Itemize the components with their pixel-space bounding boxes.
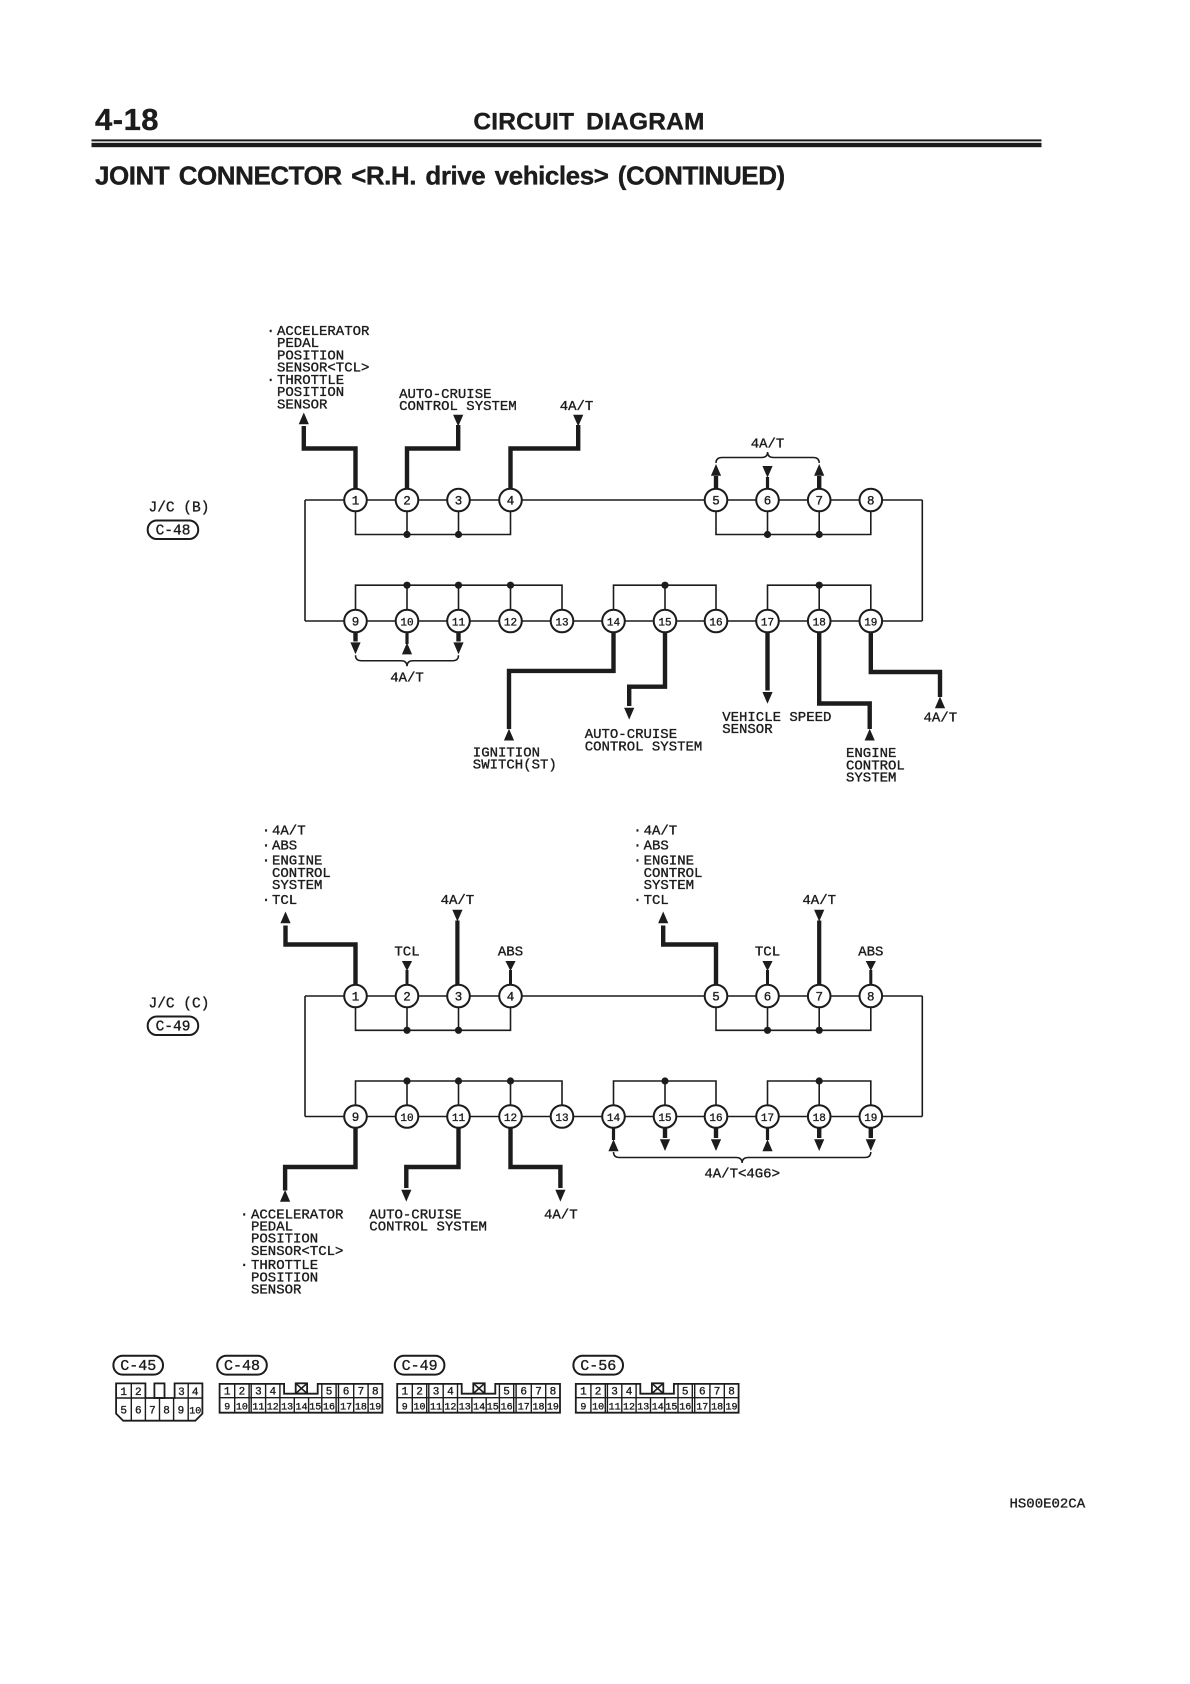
wire: terminal 6 stub (C) [766, 970, 769, 986]
wire: terminal 15 to auto-cruise control system [629, 632, 665, 706]
svg-text:2: 2 [135, 1387, 142, 1399]
svg-text:9: 9 [580, 1403, 586, 1414]
connector designator C-45 [113, 1356, 163, 1375]
svg-text:4-18: 4-18 [95, 102, 159, 137]
arrowhead up (4A/T wire) [935, 697, 945, 709]
svg-text:C-49: C-49 [402, 1358, 438, 1375]
terminal 13 (J/C C) [551, 1105, 574, 1128]
svg-text:13: 13 [459, 1403, 471, 1414]
svg-text:SYSTEM: SYSTEM [644, 878, 694, 894]
svg-text:4A/T: 4A/T [560, 399, 594, 415]
svg-text:4A/T<4G6>: 4A/T<4G6> [704, 1166, 780, 1182]
wire: terminal 12 tap (C) [510, 1081, 512, 1117]
wire: terminal 6 tap (C) [767, 996, 769, 1030]
connector designator C-48 [148, 521, 199, 540]
svg-text:4: 4 [507, 990, 515, 1004]
junction dot bus node at terminal 15 (C) [661, 1077, 668, 1084]
wire: terminal 7 stub up [817, 476, 821, 490]
svg-text:12: 12 [504, 617, 517, 629]
wire: terminal 12 tap [510, 585, 512, 621]
svg-text:17: 17 [761, 1113, 774, 1125]
svg-text:10: 10 [400, 617, 413, 629]
svg-text:5: 5 [712, 990, 720, 1004]
svg-text:19: 19 [864, 617, 877, 629]
svg-text:11: 11 [452, 1113, 466, 1125]
wire: terminal 6 tap [767, 500, 769, 535]
svg-text:SYSTEM: SYSTEM [846, 771, 896, 787]
connector designator C-48 (pinout) [217, 1356, 267, 1375]
svg-text:·: · [633, 854, 641, 870]
terminal 3 (J/C B) [447, 489, 470, 512]
svg-text:8: 8 [550, 1387, 557, 1399]
svg-text:19: 19 [369, 1403, 381, 1414]
svg-text:17: 17 [761, 617, 774, 629]
wire: terminal 1 (C) to systems list [286, 926, 356, 987]
wire: terminal 17 to vehicle speed sensor [765, 632, 769, 690]
wire: terminal 11 tap (C) [458, 1081, 460, 1117]
wire: J/C(C) top row line [305, 995, 922, 997]
svg-text:19: 19 [547, 1403, 559, 1414]
svg-text:4A/T: 4A/T [802, 893, 836, 909]
wire: 4A/T to terminal 3 (C) [455, 921, 459, 987]
svg-text:4A/T: 4A/T [924, 711, 958, 727]
svg-text:SENSOR: SENSOR [722, 722, 773, 738]
svg-text:4A/T: 4A/T [751, 436, 785, 452]
wire: terminal 4 stub (C) [509, 970, 512, 986]
terminal 18 (J/C B) [808, 610, 831, 633]
svg-text:10: 10 [413, 1403, 425, 1414]
terminal 14 (J/C C) [602, 1105, 625, 1128]
terminal 15 (J/C B) [654, 610, 677, 633]
wire: terminal 6 stub [766, 477, 769, 490]
svg-text:7: 7 [714, 1387, 721, 1399]
svg-text:19: 19 [725, 1403, 737, 1414]
label: 4A/T ABS engine control system TCL (left) [262, 824, 331, 910]
svg-text:4A/T: 4A/T [544, 1207, 578, 1223]
terminal 1 (J/C B) [344, 489, 367, 512]
terminal 10 (J/C B) [396, 610, 419, 633]
terminal 11 (J/C C) [447, 1105, 470, 1128]
label: accelerator pedal position sensor / throttle position sensor (bottom) [240, 1207, 344, 1298]
arrowhead up (engine control wire) [865, 729, 875, 741]
wire: terminal 2 tap [406, 500, 408, 535]
svg-text:14: 14 [295, 1403, 307, 1414]
svg-text:11: 11 [252, 1403, 264, 1414]
svg-text:14: 14 [652, 1403, 664, 1414]
svg-text:·: · [240, 1258, 248, 1274]
svg-text:2: 2 [403, 494, 411, 508]
wire: bus under J/C(B) terminals 5-8 [716, 500, 871, 535]
junction dot bus node at terminal 11 (C) [455, 1077, 462, 1084]
arrowhead down (terminal 11) [453, 642, 463, 654]
svg-text:·: · [262, 854, 270, 870]
svg-text:JOINT CONNECTOR <R.H. drive ve: JOINT CONNECTOR <R.H. drive vehicles> (C… [95, 161, 785, 191]
brace under terminals 14-19 (C) [614, 1152, 871, 1163]
wire: terminal 16 stub (C) [714, 1128, 718, 1138]
junction dot bus node at terminal 7 [816, 531, 823, 538]
terminal 7 (J/C C) [808, 985, 831, 1008]
svg-text:7: 7 [535, 1387, 542, 1399]
junction dot bus node at terminal 18 (C) [816, 1077, 823, 1084]
svg-text:·: · [262, 824, 270, 840]
wire: J/C(C) bottom row line [305, 1116, 922, 1118]
svg-text:17: 17 [696, 1403, 708, 1414]
connector C-49 (pinout) pin layout [397, 1383, 560, 1413]
svg-text:9: 9 [224, 1403, 230, 1414]
wire: bus over J/C(B) terminals 9-13 [356, 585, 563, 621]
svg-text:4: 4 [269, 1387, 276, 1399]
connector C-56 (pinout) pin layout [576, 1383, 739, 1413]
svg-text:ABS: ABS [644, 839, 669, 855]
svg-text:11: 11 [430, 1403, 442, 1414]
svg-text:13: 13 [555, 617, 568, 629]
svg-text:10: 10 [236, 1403, 248, 1414]
wire: terminal 10 tap [406, 585, 408, 621]
svg-text:17: 17 [518, 1403, 530, 1414]
svg-text:12: 12 [504, 1113, 517, 1125]
svg-text:6: 6 [764, 494, 772, 508]
junction dot bus node at terminal 10 (C) [403, 1077, 410, 1084]
terminal 2 (J/C B) [396, 489, 419, 512]
svg-text:TCL: TCL [272, 893, 297, 909]
svg-text:C-48: C-48 [156, 523, 191, 539]
arrowhead down (terminal 4 C) [505, 961, 515, 971]
svg-text:7: 7 [815, 990, 823, 1004]
wire: bus over J/C(C) terminals 17-19 [768, 1081, 871, 1117]
svg-text:16: 16 [501, 1403, 513, 1414]
svg-text:1: 1 [120, 1387, 127, 1399]
svg-text:19: 19 [864, 1113, 877, 1125]
svg-text:CONTROL SYSTEM: CONTROL SYSTEM [399, 399, 517, 415]
junction dot bus node at terminal 6 [764, 531, 771, 538]
svg-text:8: 8 [867, 990, 875, 1004]
svg-text:·: · [633, 824, 641, 840]
label: accelerator pedal position sensor / throttle position sensor [267, 324, 371, 414]
arrowhead down (terminal 16 C) [711, 1139, 721, 1151]
wire: terminal 3 tap [458, 500, 460, 535]
wire: J/C(B) top row line [305, 499, 922, 501]
svg-text:14: 14 [473, 1403, 485, 1414]
arrowhead down (terminal 2 wire) [453, 415, 463, 427]
wire: terminal 18 tap (C) [818, 1081, 820, 1117]
svg-text:TCL: TCL [394, 944, 419, 960]
svg-text:8: 8 [163, 1406, 170, 1418]
terminal 5 (J/C B) [705, 489, 728, 512]
svg-text:16: 16 [323, 1403, 335, 1414]
arrowhead down (terminal 19 C) [866, 1139, 876, 1151]
terminal 8 (J/C B) [860, 489, 883, 512]
connector designator C-56 (pinout) [573, 1356, 623, 1375]
wire: J/C(B) bottom row line [305, 620, 922, 622]
svg-text:C-48: C-48 [224, 1358, 260, 1375]
label: 4A/T ABS engine control system TCL (right) [633, 824, 702, 910]
wire: terminal 19 stub (C) [869, 1128, 873, 1138]
terminal 3 (J/C C) [447, 985, 470, 1008]
junction dot bus node at terminal 15 [661, 582, 668, 589]
svg-text:1: 1 [580, 1387, 587, 1399]
arrowhead down (auto-cruise wire) [624, 708, 634, 720]
svg-text:SENSOR: SENSOR [277, 397, 328, 413]
svg-text:1: 1 [401, 1387, 408, 1399]
svg-text:5: 5 [682, 1387, 689, 1399]
arrowhead down (terminal 6) [762, 466, 772, 478]
svg-text:12: 12 [623, 1403, 635, 1414]
terminal 4 (J/C B) [499, 489, 522, 512]
svg-text:5: 5 [503, 1387, 510, 1399]
svg-text:10: 10 [189, 1407, 201, 1418]
wire: bus under J/C(C) terminals 5-8 [716, 996, 871, 1030]
svg-text:15: 15 [658, 617, 671, 629]
svg-text:5: 5 [712, 494, 720, 508]
terminal 10 (J/C C) [396, 1105, 419, 1128]
svg-text:4: 4 [626, 1387, 633, 1399]
arrowhead down (terminal 2 C) [402, 961, 412, 971]
svg-text:11: 11 [609, 1403, 621, 1414]
svg-text:15: 15 [309, 1403, 321, 1414]
svg-text:7: 7 [149, 1406, 156, 1418]
wire: terminal 18 stub (C) [817, 1128, 821, 1138]
wire: terminal 18 to engine control system [819, 632, 870, 729]
terminal 1 (J/C C) [344, 985, 367, 1008]
svg-text:J/C (C): J/C (C) [149, 997, 210, 1013]
terminal 14 (J/C B) [602, 610, 625, 633]
wire: terminal 15 tap (C) [664, 1081, 666, 1117]
svg-text:4A/T: 4A/T [441, 893, 475, 909]
svg-text:8: 8 [728, 1387, 735, 1399]
connector C-48 (pinout) pin layout [220, 1383, 383, 1413]
header thick rule [92, 143, 1042, 147]
arrowhead down (terminal 4 wire) [573, 415, 583, 427]
svg-text:13: 13 [637, 1403, 649, 1414]
junction dot bus node at terminal 2 [403, 531, 410, 538]
terminal 12 (J/C B) [499, 610, 522, 633]
svg-text:3: 3 [178, 1387, 185, 1399]
wire: terminal 19 to 4A/T [871, 632, 940, 697]
svg-text:·: · [267, 324, 275, 340]
svg-text:8: 8 [372, 1387, 379, 1399]
svg-text:4: 4 [447, 1387, 454, 1399]
svg-text:·: · [633, 839, 641, 855]
svg-text:1: 1 [352, 494, 360, 508]
svg-text:18: 18 [711, 1403, 723, 1414]
svg-text:9: 9 [352, 1111, 360, 1125]
svg-text:ABS: ABS [272, 839, 297, 855]
arrowhead down (terminal 18 C) [814, 1139, 824, 1151]
svg-text:2: 2 [239, 1387, 246, 1399]
svg-text:6: 6 [764, 990, 772, 1004]
svg-text:·: · [262, 839, 270, 855]
terminal 13 (J/C B) [551, 610, 574, 633]
wire: bus over J/C(C) terminals 14-16 [614, 1081, 717, 1117]
arrowhead down (terminal 8 C) [866, 961, 876, 971]
wire: terminal 2 stub (C) [406, 970, 409, 986]
svg-text:18: 18 [355, 1403, 367, 1414]
svg-text:4: 4 [507, 494, 515, 508]
wire: terminal 5 (C) to systems list [663, 926, 716, 987]
brace over terminals 5-7 [716, 452, 819, 463]
junction dot bus node at terminal 12 (C) [507, 1077, 514, 1084]
svg-text:TCL: TCL [755, 944, 780, 960]
terminal 4 (J/C C) [499, 985, 522, 1008]
svg-text:ABS: ABS [858, 944, 883, 960]
terminal 17 (J/C C) [756, 1105, 779, 1128]
wire: terminal 15 tap [664, 585, 666, 621]
wire: terminal 9 stub down [353, 632, 357, 641]
svg-text:CONTROL SYSTEM: CONTROL SYSTEM [585, 740, 703, 756]
svg-text:4A/T: 4A/T [644, 824, 678, 840]
svg-text:16: 16 [709, 1113, 722, 1125]
junction dot bus node at terminal 7 (C) [816, 1027, 823, 1034]
arrowhead up (terminal 7) [814, 464, 824, 476]
wire: bus over J/C(B) terminals 17-19 [768, 585, 871, 621]
svg-text:4A/T: 4A/T [390, 671, 424, 687]
svg-text:·: · [240, 1207, 248, 1223]
svg-text:3: 3 [455, 494, 463, 508]
svg-text:3: 3 [255, 1387, 262, 1399]
connector designator C-49 [148, 1017, 199, 1036]
arrowhead down (terminal 11 C wire) [401, 1190, 411, 1202]
header thin rule [92, 139, 1042, 141]
terminal 9 (J/C C) [344, 1105, 367, 1128]
terminal 12 (J/C C) [499, 1105, 522, 1128]
terminal 8 (J/C C) [860, 985, 883, 1008]
wire: terminal 15 stub (C) [663, 1128, 667, 1138]
terminal 2 (J/C C) [396, 985, 419, 1008]
svg-text:HS00E02CA: HS00E02CA [1010, 1497, 1086, 1513]
svg-text:5: 5 [326, 1387, 333, 1399]
svg-text:2: 2 [595, 1387, 602, 1399]
svg-text:6: 6 [699, 1387, 706, 1399]
wire: terminal 11 (C) to auto-cruise control system [406, 1128, 458, 1188]
wire: terminal 8 stub (C) [869, 970, 872, 986]
arrowhead down (terminal 12 C wire) [555, 1190, 565, 1202]
arrowhead up (terminal 14 C) [608, 1139, 618, 1151]
svg-text:9: 9 [178, 1406, 185, 1418]
svg-text:SYSTEM: SYSTEM [272, 878, 322, 894]
terminal 19 (J/C C) [860, 1105, 883, 1128]
svg-text:16: 16 [679, 1403, 691, 1414]
svg-text:4: 4 [192, 1387, 199, 1399]
svg-text:16: 16 [709, 617, 722, 629]
wire: terminal 9 (C) to position sensors [285, 1128, 355, 1191]
arrowhead up (terminal 1 C wire) [280, 912, 290, 924]
svg-text:4A/T: 4A/T [272, 824, 306, 840]
wire: terminal 5 stub up [714, 476, 718, 490]
svg-text:7: 7 [815, 494, 823, 508]
terminal 15 (J/C C) [654, 1105, 677, 1128]
svg-text:6: 6 [520, 1387, 527, 1399]
svg-text:TCL: TCL [644, 893, 669, 909]
terminal 16 (J/C C) [705, 1105, 728, 1128]
svg-text:18: 18 [813, 617, 826, 629]
junction dot bus node at terminal 11 [455, 582, 462, 589]
svg-text:5: 5 [120, 1406, 127, 1418]
terminal 6 (J/C B) [756, 489, 779, 512]
junction dot bus node at terminal 2 (C) [403, 1027, 410, 1034]
svg-text:9: 9 [402, 1403, 408, 1414]
svg-text:SENSOR: SENSOR [251, 1283, 302, 1299]
svg-text:15: 15 [487, 1403, 499, 1414]
arrowhead up (terminal 5) [711, 464, 721, 476]
svg-text:6: 6 [135, 1406, 142, 1418]
wire: terminal 10 stub [405, 632, 408, 644]
svg-text:6: 6 [343, 1387, 350, 1399]
wire: J/C(B) right side link [921, 500, 923, 621]
terminal 18 (J/C C) [808, 1105, 831, 1128]
wire: terminal 10 tap (C) [406, 1081, 408, 1117]
svg-text:CIRCUIT DIAGRAM: CIRCUIT DIAGRAM [473, 109, 704, 136]
wire: terminal 7 tap (C) [818, 996, 820, 1030]
wire: J/C(B) left side link [304, 500, 306, 621]
wire: 4A/T to terminal 4 [511, 425, 579, 490]
arrowhead down (terminal 7 C) [814, 910, 824, 922]
svg-text:C-49: C-49 [156, 1019, 191, 1035]
junction dot bus node at terminal 6 (C) [764, 1027, 771, 1034]
svg-text:14: 14 [607, 617, 621, 629]
svg-text:J/C (B): J/C (B) [149, 501, 210, 517]
arrowhead down (terminal 6 C) [762, 961, 772, 971]
svg-text:9: 9 [352, 615, 360, 629]
wire: J/C(C) left side link [304, 996, 306, 1117]
wire: auto-cruise to terminal 2 [407, 425, 458, 490]
wire: terminal 12 (C) to 4A/T [511, 1128, 561, 1188]
wire: terminal 18 tap [818, 585, 820, 621]
connector designator C-49 (pinout) [395, 1356, 445, 1375]
wire: terminal 11 stub down [456, 632, 460, 641]
terminal 19 (J/C B) [860, 610, 883, 633]
wire: bus over J/C(C) terminals 9-13 [356, 1081, 563, 1117]
svg-text:18: 18 [532, 1403, 544, 1414]
svg-text:13: 13 [281, 1403, 293, 1414]
svg-text:2: 2 [416, 1387, 423, 1399]
svg-text:17: 17 [340, 1403, 352, 1414]
svg-text:10: 10 [400, 1113, 413, 1125]
arrowhead up (terminal 5 C wire) [658, 912, 668, 924]
svg-text:SWITCH(ST): SWITCH(ST) [473, 758, 557, 774]
wire: 4A/T to terminal 7 (C) [817, 921, 821, 987]
wire: J/C(C) right side link [921, 996, 923, 1117]
terminal 9 (J/C B) [344, 610, 367, 633]
svg-text:C-45: C-45 [120, 1358, 156, 1375]
svg-text:15: 15 [658, 1113, 671, 1125]
wire: terminal 1 to position sensors [304, 426, 356, 490]
terminal 16 (J/C B) [705, 610, 728, 633]
svg-text:CONTROL SYSTEM: CONTROL SYSTEM [369, 1220, 487, 1236]
terminal 5 (J/C C) [705, 985, 728, 1008]
wire: bus over J/C(B) terminals 14-16 [614, 585, 717, 621]
terminal 17 (J/C B) [756, 610, 779, 633]
junction dot bus node at terminal 10 [403, 582, 410, 589]
svg-text:10: 10 [592, 1403, 604, 1414]
svg-text:2: 2 [403, 990, 411, 1004]
svg-text:11: 11 [452, 617, 466, 629]
svg-text:1: 1 [352, 990, 360, 1004]
svg-text:13: 13 [555, 1113, 568, 1125]
junction dot bus node at terminal 18 [816, 582, 823, 589]
arrowhead up (terminal 10) [402, 643, 412, 655]
junction dot bus node at terminal 3 (C) [455, 1027, 462, 1034]
arrowhead up (terminal 17 C) [762, 1139, 772, 1151]
junction dot bus node at terminal 3 [455, 531, 462, 538]
arrowhead down (vehicle speed sensor wire) [762, 692, 772, 704]
terminal 7 (J/C B) [808, 489, 831, 512]
connector C-45 pin layout [116, 1383, 202, 1420]
wire: bus under J/C(B) terminals 1-4 [356, 500, 511, 535]
arrowhead down (terminal 15 C) [660, 1139, 670, 1151]
svg-text:8: 8 [867, 494, 875, 508]
wire: bus under J/C(C) terminals 1-4 [356, 996, 511, 1030]
svg-text:7: 7 [358, 1387, 365, 1399]
